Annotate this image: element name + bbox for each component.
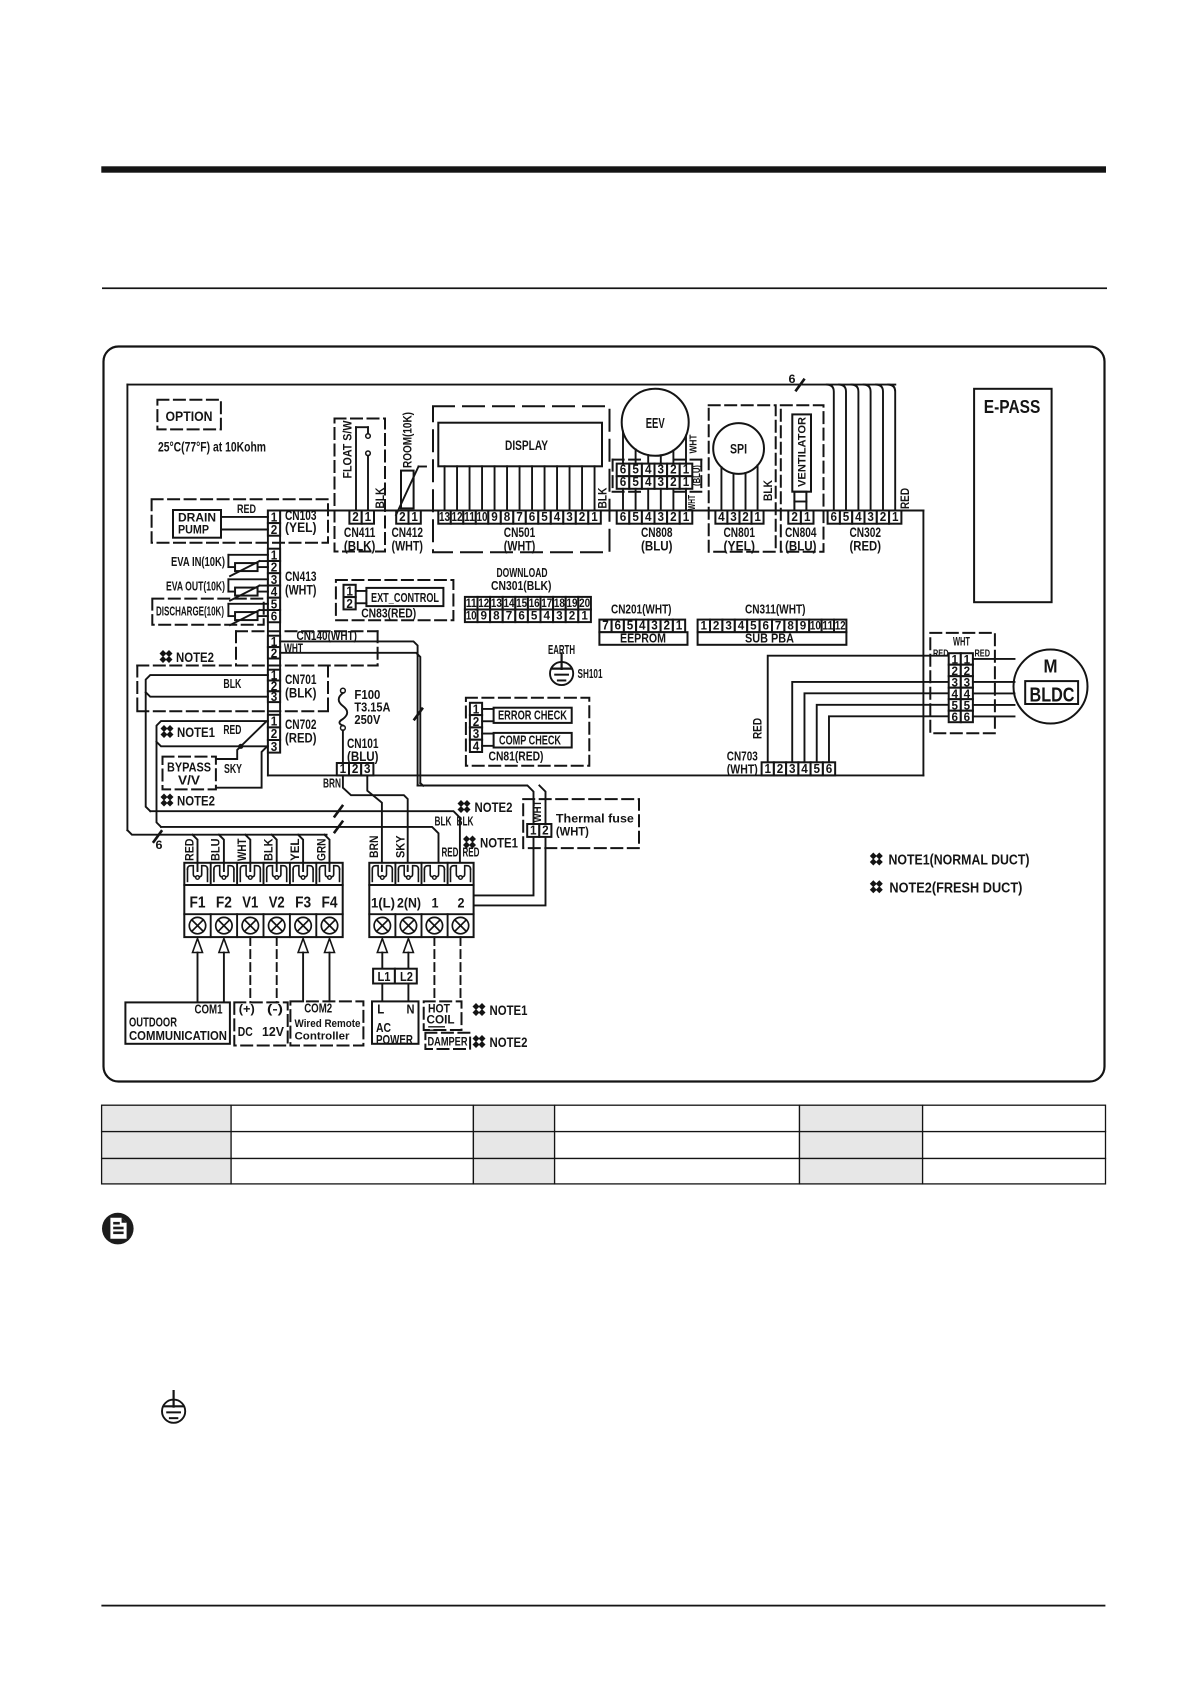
arrows to AC power bbox=[377, 939, 387, 953]
svg-text:1: 1 bbox=[365, 510, 372, 524]
DISCHARGE thermistor bbox=[228, 603, 268, 605]
wire drain pump to CN103 pin2 bbox=[221, 529, 268, 531]
wire to thermal fuse pin2 bbox=[539, 786, 545, 825]
svg-text:EEPROM: EEPROM bbox=[620, 632, 666, 646]
svg-text:10: 10 bbox=[810, 621, 821, 633]
svg-text:NOTE2: NOTE2 bbox=[176, 650, 214, 665]
svg-text:(WHT): (WHT) bbox=[392, 539, 424, 554]
svg-text:RED: RED bbox=[463, 846, 480, 860]
svg-text:BLK: BLK bbox=[262, 838, 276, 861]
wire CN140 to thermal fuse bbox=[418, 786, 534, 825]
svg-text:1: 1 bbox=[676, 619, 683, 633]
svg-text:CN703: CN703 bbox=[727, 750, 758, 764]
svg-text:ROOM(10K): ROOM(10K) bbox=[400, 412, 414, 468]
discharge dashed box bbox=[152, 599, 263, 625]
svg-text:8: 8 bbox=[504, 510, 511, 524]
svg-text:3: 3 bbox=[789, 762, 796, 776]
svg-text:4: 4 bbox=[645, 475, 652, 489]
bundle wire drops to F terminals bbox=[193, 835, 198, 871]
svg-text:1: 1 bbox=[701, 621, 708, 633]
svg-text:11: 11 bbox=[466, 598, 478, 610]
svg-text:CN201(WHT): CN201(WHT) bbox=[611, 603, 672, 617]
svg-text:EEV: EEV bbox=[646, 415, 665, 432]
svg-text:(YEL): (YEL) bbox=[724, 539, 756, 554]
svg-text:6: 6 bbox=[964, 712, 971, 724]
svg-text:RED: RED bbox=[223, 723, 241, 737]
connector CN808 (BLU) pins bbox=[617, 511, 630, 524]
fan motor M BLDC bbox=[1014, 650, 1088, 724]
svg-text:BLDC: BLDC bbox=[1030, 685, 1075, 707]
wire slash mark bbox=[414, 709, 422, 720]
CN140 dashed box bbox=[236, 630, 378, 632]
note icon bbox=[102, 1213, 134, 1245]
svg-text:(WHT): (WHT) bbox=[727, 763, 758, 777]
wire CN701 pin1 to lower bus bbox=[146, 675, 268, 811]
svg-text:GRN: GRN bbox=[314, 839, 328, 862]
thermal fuse dashed box bbox=[523, 799, 639, 848]
PCB top edge bbox=[127, 384, 895, 386]
page header bar bbox=[101, 166, 1106, 172]
svg-text:YEL: YEL bbox=[288, 839, 302, 862]
svg-text:6: 6 bbox=[518, 611, 525, 623]
svg-text:(RED): (RED) bbox=[850, 539, 882, 554]
svg-text:SPI: SPI bbox=[730, 442, 747, 457]
svg-text:5: 5 bbox=[632, 510, 639, 524]
svg-text:5: 5 bbox=[843, 510, 850, 524]
svg-text:11: 11 bbox=[822, 621, 834, 633]
svg-text:3: 3 bbox=[964, 677, 971, 689]
svg-text:5: 5 bbox=[541, 510, 548, 524]
svg-text:VENTILATOR: VENTILATOR bbox=[797, 417, 809, 487]
svg-text:E-PASS: E-PASS bbox=[984, 397, 1041, 417]
wires display to CN501 bbox=[444, 466, 446, 510]
svg-text:3: 3 bbox=[952, 677, 959, 689]
bundle 6-slash bbox=[154, 831, 162, 842]
room thermistor symbol bbox=[401, 471, 414, 509]
diagram frame bbox=[104, 347, 1105, 1082]
connector CN702 pins bbox=[268, 715, 280, 728]
svg-text:L2: L2 bbox=[400, 969, 413, 984]
svg-text:2: 2 bbox=[271, 523, 278, 537]
wires thermal fuse to terminal block bbox=[474, 837, 533, 896]
svg-text:1: 1 bbox=[581, 611, 588, 623]
svg-text:3: 3 bbox=[651, 619, 658, 633]
svg-text:NOTE2: NOTE2 bbox=[475, 800, 513, 815]
svg-text:3: 3 bbox=[658, 475, 665, 489]
svg-text:3: 3 bbox=[867, 510, 874, 524]
svg-text:15: 15 bbox=[516, 598, 528, 610]
svg-text:6: 6 bbox=[952, 712, 959, 724]
svg-text:8: 8 bbox=[493, 611, 500, 623]
header rule bbox=[102, 287, 1107, 289]
slash RED bus bbox=[335, 822, 343, 833]
svg-text:(BLU): (BLU) bbox=[641, 539, 673, 554]
connector CN81 pins bbox=[470, 703, 482, 715]
svg-text:20: 20 bbox=[579, 598, 590, 610]
svg-text:BLK: BLK bbox=[595, 487, 609, 508]
svg-text:(BLU): (BLU) bbox=[785, 539, 817, 554]
svg-text:NOTE1: NOTE1 bbox=[177, 725, 215, 740]
svg-text:COM2: COM2 bbox=[304, 1002, 332, 1016]
wire bus RED to terminal 1 bbox=[161, 827, 439, 871]
connector CN804 (BLU) pins bbox=[788, 511, 801, 524]
svg-text:11: 11 bbox=[464, 510, 475, 524]
wires SPI to CN801 bbox=[720, 467, 722, 510]
L1 L2 boxes bbox=[373, 969, 395, 984]
svg-text:WHT: WHT bbox=[686, 495, 698, 510]
svg-text:1: 1 bbox=[804, 510, 811, 524]
svg-text:6: 6 bbox=[831, 510, 838, 524]
connector CN140 pins bbox=[268, 636, 280, 647]
svg-text:M: M bbox=[1044, 656, 1058, 677]
svg-text:2: 2 bbox=[458, 895, 465, 911]
terminal screws F1-F4 bbox=[189, 917, 205, 933]
svg-text:WHT: WHT bbox=[532, 800, 544, 822]
note2 star bottom bbox=[473, 1035, 486, 1048]
svg-text:12: 12 bbox=[452, 510, 463, 524]
connector CN411 (BLK) pins bbox=[349, 511, 361, 524]
svg-text:DOWNLOAD: DOWNLOAD bbox=[497, 566, 548, 580]
connector CN703 (WHT) pins bbox=[762, 762, 774, 775]
svg-text:SKY: SKY bbox=[393, 836, 407, 859]
wire CN703 pin5 to motor bbox=[817, 705, 949, 763]
svg-text:3: 3 bbox=[271, 690, 278, 704]
svg-text:2: 2 bbox=[964, 666, 971, 678]
svg-text:3: 3 bbox=[658, 510, 665, 524]
connector CN301 pins row2 bbox=[465, 610, 478, 623]
svg-text:RED: RED bbox=[933, 648, 949, 660]
svg-text:2: 2 bbox=[777, 762, 784, 776]
float switch S/W symbol bbox=[355, 427, 357, 510]
svg-text:4: 4 bbox=[718, 510, 725, 524]
svg-text:12: 12 bbox=[478, 598, 489, 610]
wire bundle 6 to terminal block bbox=[127, 830, 326, 835]
svg-text:WHT: WHT bbox=[235, 838, 249, 861]
svg-text:4: 4 bbox=[554, 510, 561, 524]
svg-text:POWER: POWER bbox=[376, 1033, 413, 1047]
svg-text:OUTDOOR: OUTDOOR bbox=[129, 1016, 177, 1030]
svg-text:DISCHARGE(10K): DISCHARGE(10K) bbox=[156, 605, 224, 619]
svg-text:CN301(BLK): CN301(BLK) bbox=[491, 579, 552, 593]
wire SKY to bypass bbox=[216, 746, 241, 759]
svg-text:RED: RED bbox=[237, 502, 256, 516]
svg-text:2: 2 bbox=[352, 510, 359, 524]
ventilator body bbox=[792, 414, 811, 491]
svg-text:BLK: BLK bbox=[457, 815, 474, 829]
svg-text:DAMPER: DAMPER bbox=[428, 1035, 468, 1049]
E-PASS box bbox=[974, 389, 1052, 602]
svg-text:BLK: BLK bbox=[761, 480, 775, 501]
svg-text:F4: F4 bbox=[322, 895, 338, 912]
svg-text:N: N bbox=[407, 1003, 415, 1017]
svg-text:RED: RED bbox=[442, 846, 459, 860]
svg-text:RED: RED bbox=[750, 718, 764, 739]
PCB bottom edge bbox=[268, 774, 924, 776]
svg-text:1: 1 bbox=[530, 823, 537, 837]
hot coil dashed box bbox=[424, 1001, 462, 1030]
svg-text:EVA IN(10K): EVA IN(10K) bbox=[171, 555, 225, 569]
svg-text:3: 3 bbox=[725, 621, 732, 633]
wire bypass to CN702 pin3 bbox=[216, 747, 266, 788]
wire CN140 pin1 bbox=[280, 641, 418, 785]
svg-text:(WHT): (WHT) bbox=[556, 825, 589, 839]
stubs CN83 to box bbox=[356, 590, 367, 592]
svg-text:CN83(RED): CN83(RED) bbox=[361, 607, 416, 621]
svg-text:ERROR CHECK: ERROR CHECK bbox=[498, 709, 567, 723]
motor connector dashed box bbox=[930, 633, 995, 733]
COMP CHECK box bbox=[494, 733, 572, 748]
svg-text:1: 1 bbox=[754, 510, 761, 524]
wire CN101 pin1 to terminal 2N bbox=[343, 775, 408, 865]
svg-text:12V: 12V bbox=[262, 1024, 284, 1039]
stubs CN81 bbox=[482, 708, 494, 710]
svg-text:1: 1 bbox=[432, 895, 439, 911]
wire CN703 pin4 to motor bbox=[804, 693, 948, 762]
wire CN140 pin2 bbox=[280, 653, 420, 783]
dashed wires V1 V2 bbox=[249, 937, 251, 1002]
note2 star upper bbox=[160, 650, 173, 663]
motor connector pins bbox=[949, 653, 961, 665]
wire CN101 pin3 to terminal 1L bbox=[367, 775, 382, 865]
connector rail bbox=[280, 510, 923, 512]
svg-text:3: 3 bbox=[271, 740, 278, 754]
SPI dashed box bbox=[709, 405, 776, 552]
svg-text:16: 16 bbox=[529, 598, 540, 610]
svg-text:4: 4 bbox=[855, 510, 862, 524]
svg-text:NOTE1: NOTE1 bbox=[490, 1003, 528, 1018]
pin column strip bbox=[267, 511, 269, 776]
svg-text:V1: V1 bbox=[242, 895, 258, 912]
svg-text:4: 4 bbox=[738, 621, 745, 633]
svg-text:7: 7 bbox=[602, 619, 609, 633]
connector CN301 pins row1 bbox=[465, 597, 478, 610]
svg-text:SKY: SKY bbox=[224, 762, 242, 776]
wire CN703 pin1 to motor bbox=[768, 656, 949, 763]
EVA IN thermistor bbox=[228, 554, 268, 556]
wires EEV block to CN808 bbox=[622, 489, 624, 511]
svg-text:FLOAT S/W: FLOAT S/W bbox=[340, 420, 354, 479]
svg-text:18: 18 bbox=[554, 598, 566, 610]
wire bus BLK to terminal 2 bbox=[150, 811, 460, 871]
svg-text:4: 4 bbox=[473, 739, 480, 753]
svg-text:6: 6 bbox=[826, 762, 833, 776]
ventilator stem bbox=[794, 492, 806, 511]
svg-text:2: 2 bbox=[713, 621, 720, 633]
svg-text:RED: RED bbox=[182, 838, 196, 861]
svg-text:OPTION: OPTION bbox=[166, 408, 213, 424]
svg-text:6: 6 bbox=[615, 619, 622, 633]
connector CN412 (WHT) pins bbox=[396, 511, 408, 524]
connector CN201 pins bbox=[599, 620, 611, 633]
svg-text:9: 9 bbox=[481, 611, 488, 623]
svg-text:4: 4 bbox=[801, 762, 808, 776]
svg-text:(BLU): (BLU) bbox=[691, 465, 703, 486]
svg-text:PUMP: PUMP bbox=[178, 523, 209, 537]
svg-text:1: 1 bbox=[683, 475, 690, 489]
svg-text:10: 10 bbox=[466, 611, 477, 623]
svg-text:(YEL): (YEL) bbox=[285, 520, 317, 535]
connector CN101 (BLU) pins bbox=[337, 763, 349, 775]
terminal screws power bbox=[374, 917, 390, 933]
svg-text:5: 5 bbox=[964, 700, 971, 712]
svg-text:14: 14 bbox=[504, 598, 516, 610]
svg-text:BLK: BLK bbox=[223, 677, 241, 691]
svg-text:BRN: BRN bbox=[367, 836, 381, 859]
svg-text:5: 5 bbox=[627, 619, 634, 633]
svg-text:2: 2 bbox=[791, 510, 798, 524]
outdoor communication box bbox=[125, 1002, 229, 1043]
thermal fuse pins bbox=[527, 824, 539, 837]
svg-text:COMP CHECK: COMP CHECK bbox=[499, 734, 561, 748]
svg-text:NOTE1(NORMAL DUCT): NOTE1(NORMAL DUCT) bbox=[889, 853, 1030, 869]
svg-text:(+): (+) bbox=[239, 1004, 255, 1016]
svg-text:7: 7 bbox=[506, 611, 513, 623]
note2 star mid bbox=[458, 800, 471, 813]
svg-text:2: 2 bbox=[670, 510, 677, 524]
svg-text:Wired Remote: Wired Remote bbox=[295, 1018, 361, 1030]
earth symbol legend bbox=[162, 1400, 185, 1423]
svg-text:SUB PBA: SUB PBA bbox=[745, 632, 794, 646]
svg-text:Thermal fuse: Thermal fuse bbox=[556, 812, 634, 826]
wires motor connector to motor bbox=[973, 658, 1015, 660]
wire diagonal to CN702 pin1 bbox=[241, 722, 266, 747]
note1 legend bbox=[870, 853, 883, 866]
svg-text:COMMUNICATION: COMMUNICATION bbox=[129, 1029, 227, 1043]
svg-text:2: 2 bbox=[352, 762, 359, 776]
svg-text:4: 4 bbox=[639, 619, 646, 633]
svg-text:CN311(WHT): CN311(WHT) bbox=[745, 603, 806, 617]
svg-text:2: 2 bbox=[579, 510, 586, 524]
svg-text:4: 4 bbox=[964, 689, 971, 701]
SPI circle bbox=[713, 423, 764, 474]
damper dashed box bbox=[425, 1033, 470, 1049]
svg-text:2: 2 bbox=[569, 611, 576, 623]
svg-text:Controller: Controller bbox=[295, 1031, 351, 1043]
svg-text:12: 12 bbox=[835, 621, 846, 633]
wire stubs into power spades bbox=[381, 866, 383, 871]
terminal spades F1-F4 bbox=[187, 869, 189, 881]
PCB right edge bbox=[922, 511, 924, 776]
svg-text:4: 4 bbox=[952, 689, 959, 701]
break marks bbox=[429, 1026, 444, 1028]
svg-text:2: 2 bbox=[880, 510, 887, 524]
float switch dashed box bbox=[335, 419, 386, 552]
svg-text:RED: RED bbox=[975, 648, 991, 660]
svg-text:NOTE2: NOTE2 bbox=[490, 1035, 528, 1050]
svg-text:(WHT): (WHT) bbox=[285, 583, 317, 598]
svg-text:2: 2 bbox=[742, 510, 749, 524]
svg-text:V2: V2 bbox=[269, 895, 285, 912]
svg-text:6: 6 bbox=[271, 610, 278, 624]
EVA OUT thermistor bbox=[228, 578, 268, 580]
svg-text:F1: F1 bbox=[190, 895, 206, 912]
svg-text:1: 1 bbox=[683, 510, 690, 524]
svg-text:1: 1 bbox=[411, 510, 418, 524]
connector CN302 (RED) pins bbox=[828, 511, 840, 524]
svg-text:2: 2 bbox=[542, 823, 549, 837]
ventilator dashed box bbox=[781, 405, 824, 552]
note1 star mid bbox=[463, 836, 476, 849]
svg-text:2: 2 bbox=[271, 646, 278, 660]
svg-text:COIL: COIL bbox=[427, 1013, 455, 1027]
drain pump box bbox=[173, 510, 221, 538]
wire CN702 pin1 band bbox=[157, 721, 268, 827]
svg-text:NOTE2: NOTE2 bbox=[177, 794, 215, 809]
wire fuse to CN101 bbox=[342, 730, 344, 763]
svg-text:7: 7 bbox=[516, 510, 523, 524]
svg-text:DC: DC bbox=[238, 1024, 253, 1039]
COM2 wired remote dashed box bbox=[290, 1001, 363, 1045]
connector CN701 pins bbox=[268, 670, 280, 681]
svg-text:5: 5 bbox=[531, 611, 538, 623]
option dashed box bbox=[157, 400, 221, 430]
svg-text:17: 17 bbox=[541, 598, 552, 610]
svg-text:1: 1 bbox=[892, 510, 899, 524]
arrows to outdoor communication bbox=[193, 939, 203, 953]
DC 12V dashed box bbox=[234, 1002, 287, 1045]
note2 legend bbox=[870, 880, 883, 893]
svg-text:3: 3 bbox=[730, 510, 737, 524]
svg-text:WHT: WHT bbox=[687, 434, 699, 453]
SUB PBA box bbox=[698, 632, 847, 645]
wire CN701 pin3 branch bbox=[146, 692, 268, 697]
footer rule bbox=[101, 1605, 1105, 1607]
note1 star bottom bbox=[473, 1003, 486, 1016]
drain pump dashed box bbox=[152, 499, 328, 543]
terminal block power body bbox=[369, 863, 473, 937]
svg-text:5: 5 bbox=[813, 762, 820, 776]
terminal block F1-F4 body bbox=[184, 863, 342, 937]
svg-text:CN81(RED): CN81(RED) bbox=[489, 750, 544, 764]
EEV pins dashed bracket bbox=[612, 460, 614, 492]
svg-text:NOTE1: NOTE1 bbox=[480, 836, 518, 851]
svg-text:10: 10 bbox=[477, 510, 488, 524]
EXT_CONTROL dashed box bbox=[336, 580, 454, 620]
svg-text:3: 3 bbox=[566, 510, 573, 524]
svg-text:1: 1 bbox=[591, 510, 598, 524]
svg-text:5: 5 bbox=[952, 700, 959, 712]
svg-text:(RED): (RED) bbox=[285, 731, 317, 746]
EEV motor circle bbox=[622, 389, 689, 456]
svg-text:4: 4 bbox=[544, 611, 551, 623]
svg-text:1: 1 bbox=[964, 654, 971, 666]
svg-text:DISPLAY: DISPLAY bbox=[505, 438, 548, 453]
svg-text:5: 5 bbox=[632, 475, 639, 489]
wires EEV to pin rows bbox=[622, 432, 624, 464]
connector CN103 (YEL) pins bbox=[268, 511, 280, 524]
wire CN703 pin3 to motor bbox=[792, 682, 948, 762]
svg-text:25°C(77°F) at 10Kohm: 25°C(77°F) at 10Kohm bbox=[158, 439, 266, 455]
spec table bbox=[102, 1105, 1106, 1184]
svg-text:F3: F3 bbox=[295, 895, 311, 912]
wire drain pump to CN103 pin1 bbox=[221, 516, 268, 518]
EEV connector double pin row bbox=[617, 464, 630, 477]
svg-text:9: 9 bbox=[491, 510, 498, 524]
CN81 dashed box bbox=[466, 698, 589, 766]
svg-text:3: 3 bbox=[364, 762, 371, 776]
PCB left edge bbox=[126, 385, 128, 831]
svg-text:1: 1 bbox=[952, 654, 959, 666]
EEPROM box bbox=[599, 632, 687, 645]
slash BLK bus bbox=[335, 806, 343, 817]
svg-text:1: 1 bbox=[764, 762, 771, 776]
AC power box bbox=[372, 1001, 419, 1043]
svg-text:2: 2 bbox=[346, 597, 353, 611]
svg-text:COM1: COM1 bbox=[195, 1003, 223, 1017]
svg-text:6: 6 bbox=[620, 510, 627, 524]
dashed wires to hot coil bbox=[433, 937, 435, 1001]
svg-text:V/V: V/V bbox=[178, 773, 200, 788]
